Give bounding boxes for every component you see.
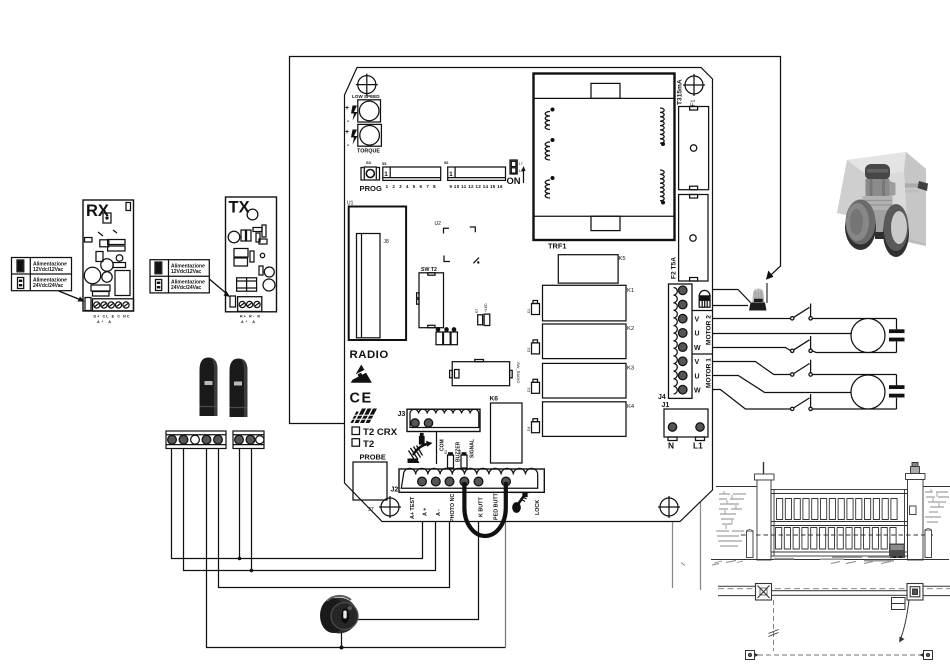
- svg-text:R+ R- R: R+ R- R: [240, 315, 260, 319]
- svg-text:T315mA: T315mA: [677, 79, 684, 105]
- svg-text:MOTOR 2: MOTOR 2: [706, 315, 713, 345]
- svg-text:TORQUE: TORQUE: [357, 149, 380, 155]
- svg-text:A +: A +: [423, 508, 429, 516]
- wire TX plus branch: [239, 448, 241, 559]
- capacitor motor2: [889, 329, 905, 341]
- svg-text:S5: S5: [382, 162, 386, 166]
- TX power select label box: [150, 260, 209, 293]
- svg-text:K BUTT: K BUTT: [479, 497, 485, 517]
- control board outline: [345, 68, 713, 522]
- mounting screw top-right: [683, 74, 705, 96]
- wire beacon 2: [712, 305, 748, 307]
- svg-text:J2: J2: [391, 487, 399, 494]
- svg-text:J3: J3: [398, 411, 406, 418]
- IC U1 radio socket: [347, 201, 406, 341]
- svg-text:PROBE: PROBE: [360, 453, 386, 462]
- svg-text:K4: K4: [627, 404, 635, 410]
- wire L1 mains: [700, 427, 702, 590]
- DIP switch 17-18 ON: [507, 160, 526, 186]
- svg-text:A -: A -: [436, 509, 442, 516]
- transformer TRF1: [534, 74, 675, 251]
- svg-text:D4: D4: [527, 427, 531, 431]
- wire motor2 V: [712, 318, 791, 320]
- photocell post right elevation: [925, 529, 932, 558]
- svg-text:MOTOR 1: MOTOR 1: [706, 358, 713, 388]
- wire N mains: [672, 427, 674, 588]
- wire motor2 W to cap: [812, 341, 896, 352]
- part K4 small: [458, 450, 467, 468]
- gate elevation right pillar: [906, 463, 926, 561]
- photocell TX terminal block: [233, 431, 264, 449]
- svg-text:K7: K7: [475, 309, 479, 313]
- svg-text:U: U: [695, 331, 700, 338]
- key icon: [511, 493, 531, 513]
- svg-text:1: 1: [384, 171, 388, 178]
- svg-text:V: V: [695, 317, 700, 324]
- TX transmitter module: [226, 197, 277, 312]
- RX label arrow: [59, 291, 85, 302]
- svg-text:CE: CE: [350, 391, 373, 407]
- label V U W motor1: [694, 359, 701, 394]
- wire key switch NO: [357, 482, 479, 620]
- svg-text:TX: TX: [229, 199, 250, 217]
- recycle triangle icon: [351, 365, 372, 383]
- svg-text:+LED: +LED: [484, 303, 488, 312]
- wire motor1 U: [712, 376, 851, 393]
- svg-text:SW_RADIO: SW_RADIO: [516, 362, 521, 383]
- motor M1: [851, 375, 885, 409]
- wire key switch bottom: [341, 630, 343, 648]
- wire motor1 W to cap: [812, 398, 896, 409]
- plan axis dashed: [718, 588, 950, 590]
- LEDs under SW T2: [436, 328, 457, 345]
- svg-text:T2: T2: [363, 439, 374, 450]
- switch SW T2: [417, 267, 444, 328]
- part K7 and LED: [475, 303, 490, 326]
- ground line elevation: [681, 557, 949, 565]
- wire beacon 1: [712, 290, 751, 303]
- mounting screw bottom-left: [379, 496, 401, 518]
- plan riser dashed: [769, 600, 779, 651]
- svg-text:L1: L1: [693, 441, 703, 451]
- diode D1: [527, 301, 540, 315]
- svg-text:COM: COM: [440, 439, 446, 451]
- junction A-: [250, 569, 254, 573]
- svg-text:V: V: [695, 359, 700, 366]
- PROBE connector J7: [353, 453, 387, 514]
- gate leaf frame: [771, 490, 908, 557]
- LOW SPEED trimmer: [345, 94, 381, 125]
- limit switch motor1 V: [791, 360, 813, 376]
- gate elevation left pillar: [755, 462, 775, 560]
- relay K1: [543, 285, 635, 321]
- gate pickets row 1: [777, 499, 898, 520]
- lamp icon on board: [699, 290, 710, 307]
- svg-text:U2: U2: [435, 221, 442, 227]
- terminal block J4: [658, 284, 692, 401]
- gate pickets row 2: [776, 528, 897, 550]
- wire lock vertical: [505, 482, 507, 648]
- PROG button S3: [360, 160, 382, 193]
- gate motor elevation: [889, 544, 905, 559]
- connector K6: [490, 396, 523, 464]
- plan left pillar: [756, 584, 772, 601]
- svg-text:RADIO: RADIO: [350, 349, 389, 361]
- wire TX minus branch: [251, 448, 253, 571]
- svg-text:RX: RX: [86, 202, 109, 220]
- photocell TX pillar: [230, 359, 248, 418]
- wire photocell A+ line: [172, 448, 423, 559]
- svg-text:U: U: [695, 373, 700, 380]
- svg-text:LOCK: LOCK: [535, 500, 541, 515]
- connector J3: [398, 409, 481, 431]
- limit switch motor2 W: [791, 336, 813, 352]
- TRF1 primary coils: [545, 108, 554, 198]
- wire photocell A- line: [184, 448, 436, 571]
- svg-text:+: +: [345, 105, 349, 112]
- wire PHOTO NC line: [219, 448, 450, 588]
- svg-text:W: W: [694, 345, 701, 352]
- wire motor1 V: [712, 362, 791, 375]
- checkbox T2: [352, 439, 374, 450]
- fuse F1: [677, 79, 709, 190]
- TX power jumper: [230, 296, 236, 307]
- relay K2: [543, 324, 635, 359]
- wire motor2 V to cap: [812, 319, 896, 330]
- svg-text:D2: D2: [527, 348, 531, 352]
- svg-text:K2: K2: [627, 326, 634, 332]
- limit switch motor1 W: [791, 394, 813, 410]
- svg-text:A+ TEST: A+ TEST: [410, 496, 416, 519]
- fuse F2: [671, 195, 709, 282]
- svg-text:ON: ON: [507, 175, 521, 186]
- svg-text:LOW SPEED: LOW SPEED: [352, 94, 380, 99]
- beacon lamp: [749, 283, 767, 311]
- wire motor2 U: [712, 333, 851, 335]
- wire key common line: [207, 448, 506, 648]
- RX power select label box: [12, 258, 72, 291]
- diode D3: [527, 379, 540, 393]
- svg-text:12Vdc/12Vac: 12Vdc/12Vac: [171, 269, 202, 275]
- svg-text:SW T2: SW T2: [421, 267, 437, 273]
- svg-text:TRF1: TRF1: [548, 242, 566, 251]
- gate operator photo: [837, 152, 928, 257]
- svg-text:F2 T5A: F2 T5A: [671, 257, 678, 279]
- checkbox T2 CRX: [352, 427, 398, 438]
- svg-text:S6: S6: [444, 161, 448, 165]
- photocell post left elevation: [747, 530, 754, 558]
- TX label arrow: [209, 279, 230, 297]
- TX terminal strip: [238, 297, 262, 312]
- svg-text:24Vdc/24Vac: 24Vdc/24Vac: [171, 285, 202, 291]
- svg-text:K3: K3: [627, 366, 634, 372]
- connector J8: [357, 234, 390, 338]
- svg-text:F1: F1: [691, 99, 697, 106]
- svg-text:24Vdc/24Vac: 24Vdc/24Vac: [33, 283, 64, 289]
- junction A+: [238, 557, 242, 561]
- plan photocell right: [921, 651, 933, 660]
- svg-text:D+ CL E C NC: D+ CL E C NC: [94, 315, 130, 319]
- motor M2: [851, 319, 885, 353]
- svg-text:17: 17: [519, 162, 523, 166]
- junction key bottom: [340, 646, 344, 650]
- svg-text:PHOTO NC: PHOTO NC: [450, 494, 456, 522]
- svg-text:J8: J8: [384, 239, 390, 245]
- photocell RX terminal block: [166, 431, 226, 449]
- terminal block J1: [662, 402, 709, 451]
- terminal block J2: [391, 468, 545, 493]
- svg-text:12Vdc/12Vac: 12Vdc/12Vac: [33, 267, 64, 273]
- part K2 small: [444, 450, 454, 468]
- svg-text:9 10 11 12 13 14 15 16: 9 10 11 12 13 14 15 16: [450, 184, 504, 189]
- plan right pillar: [907, 584, 923, 601]
- RX power jumper: [85, 298, 91, 311]
- wire motor1 V to cap: [812, 375, 896, 386]
- plan gate leaf: [772, 591, 908, 596]
- plan bottom dashed line: [750, 654, 928, 656]
- capacitor motor1: [889, 385, 905, 397]
- photocell RX pillar: [200, 358, 218, 417]
- mounting screw bottom-right: [658, 496, 680, 518]
- svg-text:S3: S3: [366, 160, 372, 165]
- svg-text:PED BUTT: PED BUTT: [494, 492, 500, 520]
- relay K3: [543, 363, 635, 398]
- TORQUE trimmer: [345, 124, 381, 154]
- RX terminal strip: [93, 299, 134, 311]
- limit switch motor2 V: [791, 304, 813, 320]
- switch SW_RADIO: [450, 360, 521, 386]
- svg-text:J4: J4: [658, 394, 666, 401]
- J4 label dividers: [692, 311, 712, 355]
- plan view walls: [718, 586, 950, 595]
- DIP switch bank 9-16: [444, 161, 506, 189]
- plan photocell left: [746, 651, 758, 660]
- svg-text:1: 1: [449, 171, 453, 178]
- svg-text:K1: K1: [627, 288, 634, 294]
- plan swing arrow: [899, 600, 909, 643]
- wire motor2 W: [712, 348, 791, 351]
- diode D4: [527, 419, 540, 433]
- jumper wire thick J2: [464, 482, 505, 536]
- TRF1 secondary coils: [660, 108, 664, 204]
- svg-text:N: N: [668, 441, 674, 451]
- svg-text:1 2 3 4 5 6 7 8: 1 2 3 4 5 6 7 8: [386, 184, 437, 189]
- relay K5: [558, 255, 625, 283]
- key switch: [320, 596, 358, 634]
- wire motor1 W: [712, 390, 791, 410]
- svg-text:K2: K2: [444, 450, 448, 454]
- svg-text:K5: K5: [619, 256, 626, 262]
- svg-text:J7: J7: [368, 507, 374, 513]
- RX receiver module: [83, 200, 134, 311]
- DIP switch bank 1-8: [382, 162, 441, 189]
- fiducial U2: [435, 221, 480, 264]
- antenna annotation arrowhead: [766, 271, 774, 280]
- svg-text:W: W: [694, 388, 701, 395]
- photocell beam dashed line: [741, 534, 936, 536]
- mounting screw top-left: [356, 74, 378, 96]
- svg-text:PROG: PROG: [360, 184, 382, 193]
- J3 COM line: [436, 432, 438, 465]
- label V U W motor2: [694, 317, 701, 352]
- svg-text:D3: D3: [527, 388, 531, 392]
- plan motor: [892, 598, 906, 610]
- svg-text:D1: D1: [527, 309, 531, 313]
- diode D2: [527, 340, 540, 354]
- svg-text:SIGNAL: SIGNAL: [470, 439, 476, 458]
- hatch bars icon: [349, 409, 377, 424]
- svg-text:T2 CRX: T2 CRX: [363, 427, 398, 438]
- svg-text:K6: K6: [490, 396, 499, 403]
- gate elevation walls: [716, 487, 950, 547]
- relay K4: [543, 402, 635, 437]
- svg-text:J1: J1: [662, 402, 670, 409]
- antenna coax annotation line: [290, 57, 781, 424]
- svg-text:+: +: [345, 129, 349, 136]
- antenna icon: [408, 434, 433, 464]
- svg-text:K4: K4: [458, 450, 462, 454]
